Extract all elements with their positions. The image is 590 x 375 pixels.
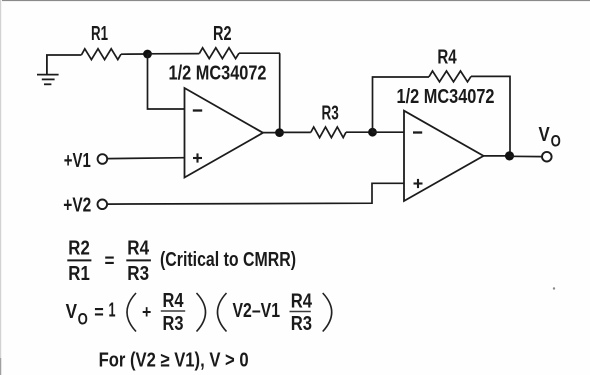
label VO — [539, 124, 561, 151]
svg-text:V: V — [539, 124, 551, 146]
wire: node A to R2 — [148, 53, 200, 55]
svg-text:R3: R3 — [322, 103, 339, 125]
svg-text:R2: R2 — [68, 237, 90, 259]
condition text: For (V2 >= V1), V > 0 — [99, 349, 249, 371]
wire: U1A output to node B — [263, 132, 280, 134]
resistor R3 — [311, 127, 346, 138]
wire: vertical drop from R2 to node B — [279, 53, 281, 132]
U1B non-inverting pin plus sign — [414, 179, 423, 188]
wire: node A down to inverting input of U1A — [148, 54, 185, 109]
svg-text:R3: R3 — [291, 313, 312, 335]
terminal +V1 open circle — [98, 154, 108, 164]
wire: R3 to node C — [346, 131, 373, 133]
svg-text:=: = — [105, 251, 115, 272]
wire: node B to R3 — [280, 131, 311, 133]
svg-text:O: O — [551, 132, 561, 151]
wire: node D to output terminal — [510, 155, 542, 157]
resistor R4 — [429, 71, 471, 82]
page left edge line — [0, 0, 1, 375]
svg-text:1: 1 — [109, 300, 116, 322]
formula: VO = 1 ( + R4/R3 ) ( V2-V1 R4/R3 ) — [66, 290, 332, 335]
wire: R2 to top-right corner — [239, 52, 280, 54]
label R3 — [322, 103, 339, 125]
svg-text:R3: R3 — [163, 313, 184, 335]
svg-text:=: = — [94, 302, 104, 323]
node A junction dot — [143, 50, 152, 59]
U1B inverting pin minus sign — [413, 131, 422, 133]
wire: R4 to right corner and down to node D — [471, 76, 510, 155]
svg-text:R4: R4 — [163, 290, 185, 312]
node D junction dot — [505, 151, 514, 160]
wire: +V1 to U1A non-inverting input — [107, 157, 184, 160]
svg-text:R4: R4 — [291, 291, 313, 313]
ground — [37, 55, 59, 84]
wire: U1B output to node D — [484, 155, 510, 157]
svg-text:For (V2 ≥ V1), V > 0: For (V2 ≥ V1), V > 0 — [99, 349, 249, 371]
svg-text:1/2 MC34072: 1/2 MC34072 — [169, 63, 267, 85]
svg-text:1/2 MC34072: 1/2 MC34072 — [397, 86, 495, 108]
wire: node C to inverting input of U1B — [373, 131, 405, 133]
svg-text:R1: R1 — [68, 263, 90, 285]
formula: R2/R1 = R4/R3 (Critical to CMRR) — [67, 237, 296, 284]
node C junction dot — [368, 128, 377, 137]
op-amp U1B (1/2 MC34072) — [404, 111, 484, 201]
label 1/2 MC34072 (U1B) — [397, 86, 495, 108]
svg-text:R2: R2 — [213, 23, 232, 45]
op-amp U1A (1/2 MC34072) — [185, 88, 264, 178]
terminal VO open circle — [542, 152, 552, 162]
svg-text:V: V — [66, 301, 78, 323]
wire: ground to R1 — [46, 54, 82, 56]
svg-text:R4: R4 — [437, 47, 457, 69]
stray speck — [553, 287, 555, 289]
svg-text:R4: R4 — [127, 237, 150, 259]
terminal +V2 open circle — [98, 200, 108, 210]
svg-text:+V2: +V2 — [63, 194, 91, 216]
node B junction dot — [275, 128, 284, 137]
wire: +V2 to U1B non-inverting input (stepped) — [107, 183, 404, 204]
svg-text:(Critical to CMRR): (Critical to CMRR) — [160, 249, 296, 271]
U1A non-inverting pin plus sign — [193, 153, 202, 162]
label R1 — [91, 23, 108, 45]
page top border line — [2, 0, 590, 1]
label +V1 — [64, 150, 91, 172]
wire: node C up to R4 (feedback) — [373, 77, 430, 132]
label 1/2 MC34072 (U1A) — [169, 63, 267, 85]
resistor R2 — [199, 48, 239, 59]
label R4 — [437, 47, 457, 69]
svg-text:+: + — [142, 302, 151, 322]
svg-text:+V1: +V1 — [64, 150, 91, 172]
label +V2 — [63, 194, 91, 216]
svg-text:O: O — [78, 310, 88, 329]
U1A inverting pin minus sign — [193, 109, 202, 111]
svg-text:R3: R3 — [127, 263, 149, 285]
label R2 — [213, 23, 232, 45]
svg-text:R1: R1 — [91, 23, 108, 45]
wire: R1 to node A — [121, 53, 148, 55]
svg-text:V2–V1: V2–V1 — [233, 300, 281, 322]
resistor R1 — [82, 49, 122, 60]
